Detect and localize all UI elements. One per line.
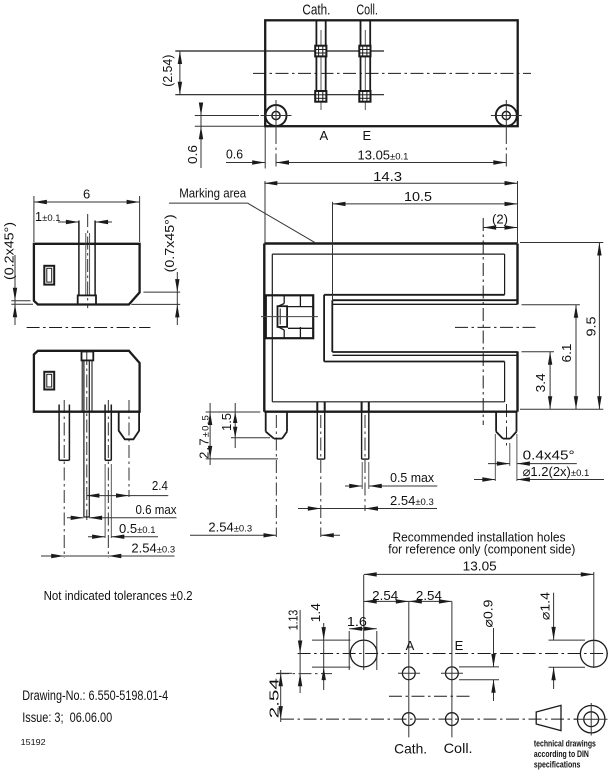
- svg-text:(0.7x45°): (0.7x45°): [162, 214, 177, 272]
- svg-text:Drawing-No.: 6.550-5198.01-4: Drawing-No.: 6.550-5198.01-4: [22, 688, 168, 703]
- dimension 1.13 hole row offset: [299, 610, 301, 693]
- front view: big pin right centerline: [506, 404, 508, 446]
- front view: big pin left (peg): [265, 412, 267, 432]
- dimension 1.4 big hole height: [323, 623, 325, 690]
- installation: A/Cath column centerline: [408, 602, 410, 738]
- front view: emitter housing block: [266, 295, 313, 338]
- dimension 14.3 body width: [264, 181, 266, 243]
- side view: lower lens housing: [82, 352, 94, 361]
- svg-text:Coll.: Coll.: [356, 2, 378, 19]
- top view: pin row line (lower): [175, 94, 384, 96]
- svg-text:Cath.: Cath.: [302, 2, 330, 19]
- front view: body outer outline: [264, 242, 517, 244]
- top view: right mounting peg hole: [496, 105, 517, 126]
- front view: thin pin A: [316, 412, 318, 459]
- top view: component body outline: [265, 20, 518, 126]
- installation: big left hole (1.6x1.4): [350, 640, 377, 667]
- installation: hole A horizontal cross: [398, 672, 420, 674]
- installation: big right hole ⌀1.4: [580, 640, 607, 667]
- side view: top pin centerline: [87, 214, 89, 308]
- dimension 9.5 body height: [520, 242, 603, 244]
- side view: upper block outline: [34, 244, 140, 305]
- top view: pin row line (upper, 2.54 ref): [175, 50, 384, 52]
- dimension ⌀1.4 big hole diameter: [553, 593, 555, 640]
- installation: big right hole centerline: [593, 572, 595, 668]
- svg-text:E: E: [363, 128, 372, 143]
- front view: right pin extension lines: [494, 434, 496, 481]
- side view: pin 1 centerline: [63, 400, 65, 558]
- side view: pin 3 side extension lines: [104, 464, 106, 538]
- svg-text:1.13: 1.13: [285, 610, 300, 630]
- front view: big pin right (peg): [495, 412, 497, 432]
- dimension 2.54±0.3 side view pin spacing: [41, 555, 175, 557]
- front view: thin pin E: [361, 412, 363, 459]
- svg-text:6: 6: [83, 187, 90, 202]
- svg-text:2.54: 2.54: [372, 588, 398, 603]
- top view: collector pin section lower: [359, 91, 370, 102]
- front view: slot near-face contour: [324, 294, 505, 296]
- dimension 10.5 slot depth: [332, 202, 334, 301]
- side view: upper lens housing: [78, 295, 96, 304]
- svg-text:10.5: 10.5: [404, 189, 432, 204]
- svg-text:according to DIN: according to DIN: [534, 749, 589, 759]
- top view: horizontal centerline: [253, 72, 531, 74]
- front view: emitter optical centerline: [261, 316, 318, 318]
- svg-text:3.4: 3.4: [533, 373, 548, 392]
- svg-text:0.5 max: 0.5 max: [390, 470, 434, 485]
- svg-text:A: A: [320, 128, 329, 143]
- top view: cathode pin strip: [315, 20, 317, 102]
- dimension 6 block width: [33, 196, 35, 242]
- dimension 1.5 peg pin length: [234, 403, 236, 448]
- svg-text:2.54: 2.54: [266, 678, 281, 718]
- dimension 6.1 slot top to bottom: [522, 304, 580, 306]
- front view: slot chamfer edge lines: [333, 303, 518, 305]
- svg-text:for reference only (component: for reference only (component side): [388, 542, 575, 557]
- front view: inner contour (draft edge): [272, 253, 504, 255]
- svg-text:15192: 15192: [21, 738, 47, 747]
- svg-text:(2): (2): [492, 212, 508, 227]
- side view: pin 1: [58, 405, 60, 461]
- dimension (2) hole centerline to edge: [483, 227, 517, 229]
- front view: slot horizontal centerline: [455, 326, 537, 328]
- front view: slot far-face contour: [332, 299, 517, 301]
- dimension 1±0.1 top pin width: [58, 221, 79, 223]
- svg-text:(0.2x45°): (0.2x45°): [2, 222, 17, 280]
- installation: hole Coll: [446, 713, 459, 726]
- front view: thin pin E centerline: [364, 415, 366, 511]
- front view: thin pin E side extension lines: [361, 462, 363, 489]
- top view: collector pin strip: [360, 20, 362, 102]
- installation: row centerline: [298, 653, 608, 655]
- dimension 0.4x45° pin chamfer: [488, 463, 510, 465]
- svg-text:1.6: 1.6: [347, 614, 367, 629]
- svg-text:14.3: 14.3: [373, 169, 402, 184]
- side view: top pin (1mm) sides: [78, 221, 80, 296]
- dimension ⌀0.9 small hole diameter: [493, 628, 495, 667]
- dimension 0.6 max pin 2 width: [67, 517, 84, 519]
- top view: collector pin section upper: [359, 46, 370, 57]
- front view: hole vertical centerline (2mm from edge): [482, 218, 484, 425]
- dimension 3.4 slot bottom to body bottom: [522, 351, 555, 353]
- side view: horizontal centerline: [27, 327, 151, 329]
- installation: hole Cath: [402, 713, 415, 726]
- installation: mid row dash-dot: [389, 695, 472, 697]
- DIN projection symbol: cone front view circles: [578, 706, 605, 733]
- svg-text:Marking area: Marking area: [179, 186, 247, 201]
- svg-text:E: E: [455, 638, 464, 653]
- side view: pin 4 centerline: [128, 400, 130, 497]
- side view: lower marking window: [44, 372, 54, 390]
- extension line: top view left edge down: [264, 127, 266, 169]
- extension lines shared between side and front view: [206, 411, 261, 413]
- installation: hole E horizontal cross: [441, 672, 463, 674]
- svg-text:0.6: 0.6: [226, 147, 243, 162]
- top view: cathode pin section upper: [315, 46, 326, 57]
- side view: upper marking window: [44, 266, 54, 285]
- extension line: left hole centerline down: [275, 131, 277, 169]
- dimension (2.54) pin row spacing: [179, 51, 181, 95]
- dimension 2.54±0.3 thin pin spacing (right): [298, 508, 437, 510]
- side view: pin 3 centerline: [107, 400, 109, 558]
- svg-text:⌀0.9: ⌀0.9: [481, 600, 496, 628]
- dimension 0.6 hole to bottom edge (vertical): [200, 103, 202, 168]
- dimension 2.54 vertical row spacing: [280, 670, 282, 722]
- svg-text:⌀1.4: ⌀1.4: [538, 592, 553, 620]
- svg-text:Not indicated tolerances ±0.2: Not indicated tolerances ±0.2: [44, 588, 193, 603]
- dimension 1.6 big hole width: [349, 628, 377, 630]
- svg-text:6.1: 6.1: [559, 344, 574, 363]
- svg-text:(2.54): (2.54): [160, 55, 175, 87]
- installation: E/Coll column centerline: [451, 602, 453, 738]
- svg-text:0.6 max: 0.6 max: [136, 502, 177, 517]
- svg-text:2.4: 2.4: [152, 478, 168, 493]
- side view: pin 4 (peg) outline: [119, 412, 139, 440]
- DIN projection symbol: cone side view: [536, 705, 561, 730]
- dimension 2.54 + 2.54 installation: [364, 600, 452, 602]
- svg-text:13.05: 13.05: [463, 558, 497, 573]
- front view: big pin left centerline: [275, 415, 277, 537]
- side view: lower channel centerline: [86, 352, 88, 520]
- dimension 2.7±0.5 pin protrusion: [209, 403, 211, 465]
- dimension 2.4 pin spacing: [86, 495, 168, 497]
- side view: top pin inner lines: [85, 233, 87, 295]
- dimension 13.05 installation: [364, 573, 594, 575]
- top view: left mounting peg hole: [266, 105, 287, 126]
- svg-text:Issue: 3; 06.06.00: Issue: 3; 06.06.00: [22, 710, 112, 725]
- svg-text:1.4: 1.4: [308, 603, 323, 622]
- installation: hole E: [446, 667, 459, 680]
- svg-text:0.4x45°: 0.4x45°: [523, 448, 575, 463]
- extension line: right hole centerline down: [505, 131, 507, 169]
- installation: Cath/Coll row centerline: [281, 718, 577, 720]
- dimension (0.2x45°) chamfer: [14, 255, 16, 325]
- svg-text:technical drawings: technical drawings: [534, 739, 596, 749]
- side view: lower block outline: [34, 351, 140, 412]
- svg-text:specifications: specifications: [534, 759, 581, 769]
- side view: lower pin channel lines: [81, 360, 83, 411]
- side view: pin 2 (long): [83, 360, 85, 517]
- dimension 0.5±0.1 pin 3 width: [88, 536, 105, 538]
- dimension 13.05±0.1 hole spacing: [276, 162, 506, 164]
- installation: hole A: [402, 667, 415, 680]
- installation: big left hole centerline: [363, 575, 365, 670]
- side view: pin 3: [104, 405, 106, 461]
- dimension ⌀1.2(2x)±0.1 peg diameter: [474, 479, 495, 481]
- svg-text:1.5: 1.5: [219, 413, 234, 431]
- dimension 0.5 max thin pin width: [345, 485, 362, 487]
- svg-text:Cath.: Cath.: [394, 741, 427, 757]
- dimension 2.54±0.3 peg to thin pin (left): [190, 534, 277, 536]
- dimension (0.7x45°) chamfer: [176, 272, 178, 325]
- front view: emitter lens: [278, 306, 288, 327]
- svg-text:9.5: 9.5: [584, 317, 599, 337]
- svg-text:2.54: 2.54: [416, 588, 442, 603]
- svg-text:Coll.: Coll.: [444, 740, 473, 756]
- top view: cathode pin section lower: [315, 91, 326, 102]
- svg-text:A: A: [406, 638, 415, 653]
- front view: thin pin A centerline: [320, 415, 322, 537]
- dimension 0.6 left edge to hole (horizontal): [226, 162, 265, 164]
- svg-text:0.6: 0.6: [185, 145, 200, 164]
